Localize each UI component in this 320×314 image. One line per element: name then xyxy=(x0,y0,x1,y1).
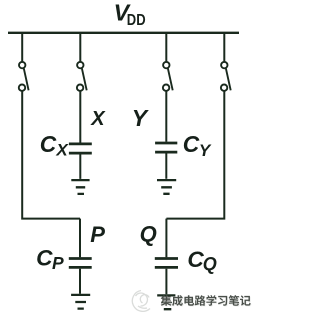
wire switch2 top xyxy=(79,32,81,62)
wire node P xyxy=(79,219,81,258)
wire CX to ground xyxy=(79,154,81,179)
capacitor CP bottom plate xyxy=(69,266,92,269)
wire switch4 to node Q xyxy=(166,91,225,218)
capacitor CQ bottom plate xyxy=(155,266,178,269)
VDD rail xyxy=(8,32,239,34)
wire switch4 top xyxy=(223,32,225,62)
svg-text:Q: Q xyxy=(140,221,157,246)
capacitor CY bottom plate xyxy=(155,151,177,154)
svg-text:P: P xyxy=(90,222,105,247)
wire switch1 to node P xyxy=(21,91,80,218)
capacitor CQ top plate xyxy=(155,257,178,260)
ground P xyxy=(71,295,90,309)
switch S1 arm xyxy=(24,68,29,90)
svg-text:C: C xyxy=(40,131,57,157)
wire CP to ground xyxy=(79,269,81,294)
switch S4 bottom contact xyxy=(221,85,227,91)
svg-text:DD: DD xyxy=(127,12,146,29)
capacitor CY top plate xyxy=(155,142,177,145)
capacitor CP top plate xyxy=(69,257,92,260)
ground Y xyxy=(157,180,176,194)
svg-text:P: P xyxy=(52,253,64,273)
wire CQ to ground xyxy=(165,269,167,295)
watermark text 集成电路学习笔记 xyxy=(161,295,251,306)
switch S3 arm xyxy=(168,68,173,90)
svg-text:Q: Q xyxy=(203,254,217,274)
wire node X xyxy=(79,91,81,142)
svg-text:X: X xyxy=(55,141,69,160)
switch S3 bottom contact xyxy=(163,85,169,91)
wire switch1 top xyxy=(21,32,23,62)
capacitor CX top plate xyxy=(69,143,92,146)
wire node Y xyxy=(165,91,167,142)
watermark text highlight copy xyxy=(162,296,252,307)
switch S2 arm xyxy=(82,68,87,90)
svg-text:Y: Y xyxy=(199,141,212,160)
switch S1 top contact xyxy=(19,62,25,68)
capacitor CX bottom plate xyxy=(69,152,92,155)
switch S1 bottom contact xyxy=(19,85,25,91)
switch S4 top contact xyxy=(221,62,227,68)
ground X xyxy=(71,180,89,194)
wire CY to ground xyxy=(165,153,167,178)
ground Q xyxy=(157,295,175,309)
wire node Q xyxy=(165,219,167,258)
svg-text:C: C xyxy=(36,245,53,270)
switch S2 top contact xyxy=(77,62,83,68)
watermark logo swirl xyxy=(132,291,150,312)
svg-text:Y: Y xyxy=(132,105,150,131)
switch S3 top contact xyxy=(163,62,169,68)
switch S4 arm xyxy=(226,68,231,90)
switch S2 bottom contact xyxy=(77,85,83,91)
wire switch3 top xyxy=(165,32,167,62)
svg-text:X: X xyxy=(90,108,106,130)
svg-text:C: C xyxy=(183,131,200,157)
